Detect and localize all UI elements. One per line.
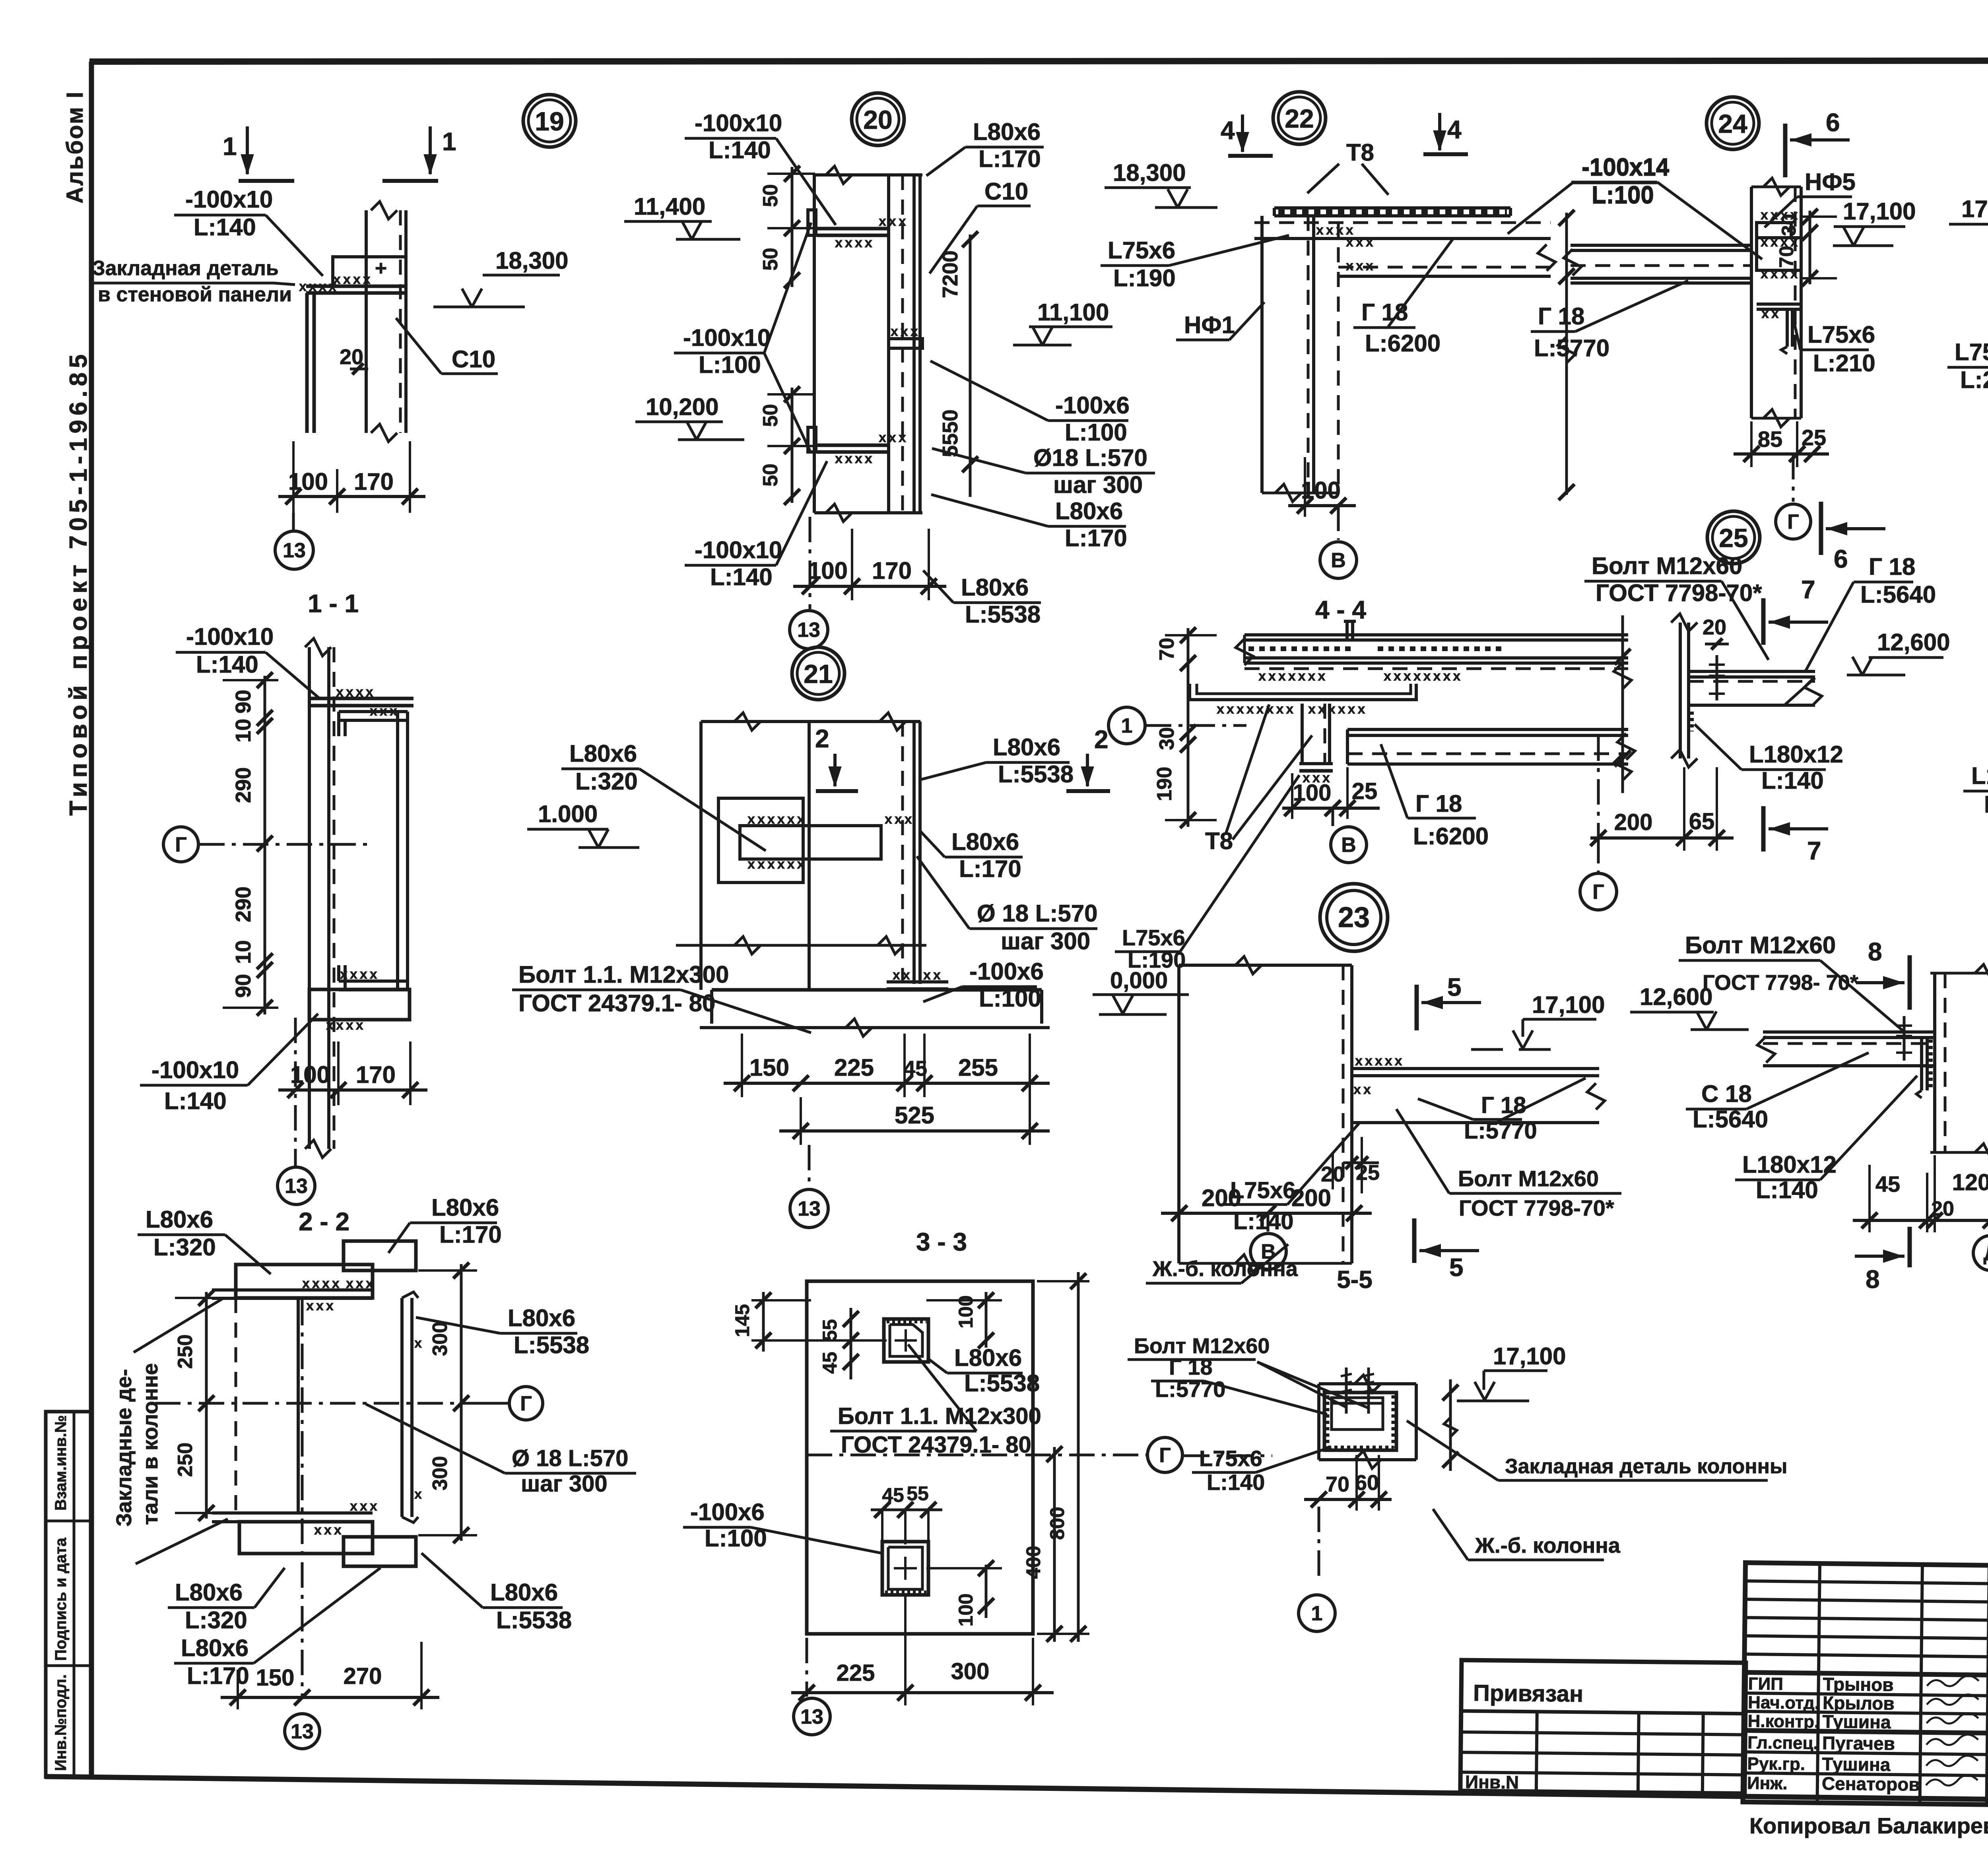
title 1-1 <box>308 589 359 618</box>
cut mark 2 right (21) <box>1066 725 1110 791</box>
label Ø18 L570 шаг300 (21) <box>917 856 1098 954</box>
cut mark 7 top (25) <box>1763 575 1828 645</box>
svg-text:L:210: L:210 <box>1960 367 1988 393</box>
svg-text:8: 8 <box>1866 1265 1880 1294</box>
svg-text:x: x <box>414 1487 424 1502</box>
stamp label vzam <box>52 1415 70 1511</box>
svg-text:400: 400 <box>1022 1546 1044 1579</box>
bottom-right plate (2-2) <box>344 1537 416 1566</box>
channel C10 (1-1) <box>339 712 408 990</box>
dim chain left (1-1) <box>223 672 278 1016</box>
svg-text:10: 10 <box>231 719 255 743</box>
column (2-2) <box>236 1298 298 1513</box>
svg-text:300: 300 <box>429 1456 452 1491</box>
svg-text:-100x10: -100x10 <box>186 623 274 650</box>
dim vert right (5-5) <box>1442 1379 1458 1471</box>
svg-text:55: 55 <box>819 1319 841 1341</box>
svg-text:xxxx: xxxx <box>1761 208 1800 223</box>
weld xxx (22) <box>1316 223 1376 273</box>
label -100x6 L100 (20) <box>930 361 1130 446</box>
svg-text:L80x6: L80x6 <box>490 1579 558 1606</box>
detail 20 bubble <box>852 93 904 145</box>
svg-text:18,300: 18,300 <box>495 247 569 274</box>
dim 50/50 bottom (20) <box>759 386 815 505</box>
svg-text:Болт 1.1. М12x300: Болт 1.1. М12x300 <box>838 1403 1041 1429</box>
dim 55 45 (3-3) <box>819 1308 859 1379</box>
T8 member (n1) <box>1190 684 1416 717</box>
dim 85 25 (24) <box>1734 421 1829 467</box>
label Г18 L5770 (24) <box>1531 281 1688 361</box>
svg-text:-100x10: -100x10 <box>683 324 771 351</box>
svg-text:L:6200: L:6200 <box>1365 330 1441 357</box>
svg-text:L:320: L:320 <box>575 768 638 795</box>
svg-text:C10: C10 <box>452 346 495 372</box>
label L75x6 L210 (24) <box>1793 318 1875 376</box>
embed angle block (21) <box>718 798 914 883</box>
svg-text:Ø 18 L:570: Ø 18 L:570 <box>977 900 1098 927</box>
svg-text:xx: xx <box>1353 1082 1373 1097</box>
label L180x12 L140 (26) <box>1735 1076 1917 1203</box>
dim 100 25 (n1) <box>1282 767 1380 819</box>
svg-text:С 18: С 18 <box>1701 1080 1752 1107</box>
label Г18 L5640 (25) <box>1805 553 1936 672</box>
detail 19 bubble <box>523 95 576 147</box>
svg-text:-100x10: -100x10 <box>695 110 782 136</box>
svg-text:170: 170 <box>356 1061 396 1088</box>
svg-text:Г: Г <box>175 833 186 856</box>
svg-text:L:5538: L:5538 <box>965 601 1041 628</box>
label -100x10 L140 (1-1 top) <box>176 623 320 699</box>
label L75x6 L140 (23) <box>1223 1123 1359 1234</box>
sheet border bottom <box>45 1777 1988 1806</box>
svg-text:300: 300 <box>951 1658 990 1684</box>
label L80x6 L320 (2-2 top) <box>138 1206 271 1274</box>
label -100x14 L100 (24) <box>1571 153 1762 259</box>
wall panel column (19) <box>366 202 406 442</box>
svg-text:L:6200: L:6200 <box>1413 823 1489 850</box>
detail 19 cut mark 1 right <box>382 126 456 181</box>
svg-text:-100x10: -100x10 <box>695 537 782 563</box>
svg-text:1: 1 <box>1121 714 1133 737</box>
svg-text:Типовой проект 705-1-196.85: Типовой проект 705-1-196.85 <box>65 350 92 816</box>
svg-text:24: 24 <box>1718 109 1747 138</box>
column left (22) <box>1262 216 1338 502</box>
svg-text:L:100: L:100 <box>1592 181 1654 208</box>
svg-text:200: 200 <box>1614 809 1653 835</box>
svg-text:xxxxxx: xxxxxx <box>747 857 807 872</box>
svg-text:Д: Д <box>1983 1242 1988 1265</box>
label -100x6 L100 (21) <box>923 958 1044 1012</box>
svg-text:L:5640: L:5640 <box>1860 581 1936 608</box>
svg-text:тали в колонне: тали в колонне <box>138 1363 162 1525</box>
elevation 18.300 (19) <box>433 247 569 307</box>
svg-text:290: 290 <box>231 886 255 922</box>
svg-text:11,100: 11,100 <box>1037 299 1109 326</box>
svg-text:Тушина: Тушина <box>1822 1711 1891 1732</box>
title 5-5 <box>1337 1266 1373 1294</box>
label -100x10 L100 (20) <box>674 223 811 453</box>
svg-text:L:140: L:140 <box>164 1088 227 1114</box>
svg-text:L:140: L:140 <box>1984 791 1988 818</box>
svg-text:-100x14: -100x14 <box>1582 153 1670 180</box>
embed plate vertical (19) <box>307 293 314 433</box>
svg-text:20: 20 <box>1703 615 1726 639</box>
detail 25 bubble <box>1707 511 1760 564</box>
svg-text:xxxx: xxxx <box>835 235 875 250</box>
svg-text:200: 200 <box>1291 1185 1331 1211</box>
svg-text:В: В <box>1261 1240 1276 1263</box>
title 3-3 <box>916 1228 967 1256</box>
svg-text:L:170: L:170 <box>978 145 1041 172</box>
svg-text:3 - 3: 3 - 3 <box>916 1228 967 1256</box>
svg-text:L80x6: L80x6 <box>431 1194 499 1221</box>
dim 30 70 (24) <box>1775 209 1837 286</box>
svg-text:шаг 300: шаг 300 <box>521 1471 608 1497</box>
svg-text:L:320: L:320 <box>185 1607 247 1633</box>
svg-text:xxxx: xxxx <box>340 967 380 982</box>
svg-text:5: 5 <box>1449 1253 1464 1282</box>
label Т8 (22) <box>1307 139 1388 195</box>
axis 13 (2-2) <box>285 1714 320 1749</box>
svg-text:12,600: 12,600 <box>1640 983 1713 1010</box>
elevation 17.100 (6-6) <box>1949 196 1988 242</box>
label Г18 L5770 (23) <box>1418 1092 1537 1144</box>
svg-text:11,400: 11,400 <box>634 193 705 220</box>
svg-text:L75x6: L75x6 <box>1108 237 1175 264</box>
cut mark 6 bottom (24) <box>1821 502 1885 573</box>
axis В (n1) <box>1331 808 1367 863</box>
dim 100 top (3-3) <box>926 1292 1002 1348</box>
right angle L5538 (2-2) <box>402 1292 424 1523</box>
axis horizontal (2-2) <box>155 1387 543 1420</box>
dim 225 300 (3-3) <box>791 1596 1054 1705</box>
svg-text:-100x10: -100x10 <box>185 186 273 213</box>
svg-text:L:170: L:170 <box>439 1221 502 1248</box>
svg-text:10,200: 10,200 <box>646 394 719 420</box>
dim 250 250 (2-2) <box>174 1290 223 1521</box>
dim 20 (19) <box>340 345 368 374</box>
dim line 2 (21) <box>779 1097 1050 1145</box>
svg-text:НФ1: НФ1 <box>1184 312 1235 338</box>
svg-text:L:140: L:140 <box>1756 1177 1818 1203</box>
svg-text:-100x6: -100x6 <box>690 1499 765 1525</box>
label L80x6 L5538 (3-3) <box>927 1344 1040 1397</box>
svg-text:250: 250 <box>174 1334 197 1369</box>
svg-text:Болт М12x60: Болт М12x60 <box>1685 932 1836 958</box>
svg-text:30: 30 <box>1155 727 1178 750</box>
column (23) <box>1179 956 1352 1272</box>
svg-text:xxx: xxx <box>891 324 920 339</box>
svg-text:L:5538: L:5538 <box>514 1332 589 1358</box>
label C10 (20) <box>930 178 1031 273</box>
svg-text:85: 85 <box>1758 427 1782 452</box>
sheet border top <box>89 60 1988 62</box>
svg-text:2: 2 <box>1094 725 1109 754</box>
embed channel (5-5) <box>1324 1393 1396 1450</box>
svg-text:в стеновой панели: в стеновой панели <box>98 283 292 306</box>
label Г18 L6200 (n1) <box>1381 744 1489 850</box>
svg-text:L75x6: L75x6 <box>1807 321 1875 348</box>
label L80x6 L170 (20 topright) <box>926 118 1044 176</box>
svg-text:xxx: xxx <box>306 1298 336 1313</box>
weld small (23) <box>1353 1082 1373 1097</box>
elevation 18.300 (22) <box>1105 159 1217 208</box>
dim 150 270 (2-2) <box>221 1642 439 1709</box>
angle L80 (20) <box>903 175 920 513</box>
svg-text:Подпись и дата: Подпись и дата <box>52 1537 70 1661</box>
stamp box divider 2 <box>46 1664 91 1667</box>
svg-text:Инв.N: Инв.N <box>1465 1771 1519 1792</box>
axis Г circle (1-1) <box>163 827 374 862</box>
column (5-5) <box>1319 1375 1416 1468</box>
embed box 2 (3-3) <box>882 1542 928 1595</box>
svg-text:17,100: 17,100 <box>1493 1343 1566 1369</box>
column (21) <box>701 713 920 990</box>
column axis dashed (22) <box>1337 223 1340 493</box>
bolt (26) <box>1896 1016 1912 1061</box>
title 4-4 <box>1315 595 1366 624</box>
svg-text:L:190: L:190 <box>1113 265 1176 291</box>
dim 100 (22) <box>1288 457 1356 517</box>
label -100x10 L140 (20 top) <box>685 110 836 225</box>
svg-text:xxx: xxx <box>346 1276 376 1291</box>
svg-text:xxx: xxx <box>879 214 909 229</box>
stamp label inv <box>52 1674 70 1771</box>
dim line bottom (20) <box>793 529 946 600</box>
label С18 L5640 (26) <box>1686 1053 1869 1133</box>
svg-text:Гл.спец.: Гл.спец. <box>1747 1733 1818 1753</box>
label Закладная деталь колонны <box>1407 1421 1787 1480</box>
svg-text:100: 100 <box>1301 477 1341 504</box>
dim 50/50 top (20) <box>759 166 815 288</box>
svg-text:L:5538: L:5538 <box>964 1370 1040 1397</box>
label Болт 1.1 М12x300 (21) <box>512 961 811 1033</box>
dim 300 300 (2-2) <box>418 1263 477 1543</box>
svg-text:xxxx: xxxx <box>835 451 875 466</box>
svg-text:25: 25 <box>1352 778 1378 804</box>
svg-text:Болт 1.1. М12x300: Болт 1.1. М12x300 <box>518 961 729 988</box>
bolt (25) <box>1709 655 1725 700</box>
axis В (22) <box>1320 506 1357 578</box>
svg-text:13: 13 <box>283 539 306 562</box>
svg-text:L:170: L:170 <box>187 1662 249 1689</box>
svg-text:800: 800 <box>1046 1507 1068 1540</box>
embed plate upper (20) <box>808 210 909 250</box>
svg-text:Г 18: Г 18 <box>1361 299 1408 326</box>
label НФ1 (22) <box>1176 302 1264 340</box>
svg-text:L:100: L:100 <box>1065 419 1127 446</box>
svg-text:L:140: L:140 <box>709 137 771 163</box>
axis 13 (20) <box>790 517 828 649</box>
svg-text:xx: xx <box>1761 306 1781 321</box>
svg-text:В: В <box>1331 549 1346 572</box>
stamp label podpis <box>52 1537 70 1661</box>
svg-text:Закладная деталь колонны: Закладная деталь колонны <box>1505 1455 1787 1478</box>
svg-text:100: 100 <box>1293 780 1332 806</box>
svg-text:шаг 300: шаг 300 <box>1053 471 1143 498</box>
svg-text:50: 50 <box>759 248 782 271</box>
svg-text:70: 70 <box>1326 1472 1349 1496</box>
svg-text:Трынов: Трынов <box>1823 1674 1893 1695</box>
svg-text:19: 19 <box>535 107 564 136</box>
svg-text:10: 10 <box>231 940 255 964</box>
svg-text:xxxxxxx: xxxxxxx <box>1258 669 1328 684</box>
svg-text:xx: xx <box>923 968 943 983</box>
bracket C18 (23) <box>1352 1053 1605 1123</box>
plate stack (24) <box>1757 208 1801 281</box>
svg-text:65: 65 <box>1689 809 1715 834</box>
svg-text:L:140: L:140 <box>710 564 773 590</box>
svg-text:Инж.: Инж. <box>1747 1773 1788 1793</box>
axis Г (24) <box>1776 454 1811 539</box>
album label <box>62 91 88 204</box>
svg-text:L:5770: L:5770 <box>1464 1118 1537 1144</box>
svg-text:Г: Г <box>1159 1444 1171 1467</box>
svg-text:Привязан: Привязан <box>1473 1680 1583 1707</box>
dim 200 65 (25) <box>1590 767 1734 851</box>
label L80x6 L170 (2-2 top) <box>388 1194 502 1253</box>
sheet border left <box>89 62 94 1777</box>
svg-text:1: 1 <box>223 132 237 161</box>
bracket beam (25) <box>1689 671 1822 705</box>
svg-text:L:5640: L:5640 <box>1693 1106 1768 1133</box>
svg-text:190: 190 <box>1153 767 1176 801</box>
stamp box outer <box>46 1412 91 1777</box>
column (24) <box>1751 178 1801 427</box>
svg-text:L80x6: L80x6 <box>954 1344 1022 1371</box>
svg-text:Г 18: Г 18 <box>1538 303 1584 330</box>
svg-text:ГОСТ 7798-70*: ГОСТ 7798-70* <box>1459 1195 1614 1220</box>
svg-text:L80x6: L80x6 <box>951 828 1019 855</box>
svg-text:100: 100 <box>955 1593 977 1626</box>
svg-text:L80x6: L80x6 <box>961 574 1029 601</box>
label L80x6 L320 (21) <box>561 740 766 851</box>
label Болт М12x60 (23) <box>1396 1109 1621 1220</box>
svg-text:xxxxxxxx: xxxxxxxx <box>1384 669 1463 684</box>
elevation 1.000 (21) <box>527 801 639 848</box>
svg-text:xxx: xxx <box>1346 258 1376 273</box>
label -100x14 L100 (22r) <box>1508 154 1670 234</box>
axis 13 (1-1) <box>278 1018 315 1205</box>
beam C18 right (n1) <box>1347 729 1635 764</box>
svg-text:xxxx: xxxx <box>1761 235 1800 250</box>
svg-text:Г: Г <box>1592 881 1604 904</box>
svg-text:xxxx: xxxx <box>302 1276 342 1291</box>
svg-text:12,600: 12,600 <box>1877 629 1950 656</box>
svg-text:L80x6: L80x6 <box>146 1206 213 1233</box>
dim 5550 (20) <box>938 409 978 497</box>
svg-text:xxxxxx: xxxxxx <box>1308 702 1367 717</box>
detail 21 bubble <box>792 647 845 700</box>
svg-text:L:190: L:190 <box>1128 947 1186 972</box>
elevation 12.600 (26) <box>1630 983 1749 1030</box>
stamp box divider col <box>73 1412 76 1777</box>
svg-text:150: 150 <box>749 1054 789 1081</box>
dim 100 bottom (3-3) <box>926 1560 1002 1627</box>
svg-text:L180x12: L180x12 <box>1971 762 1988 789</box>
svg-text:L:170: L:170 <box>959 855 1021 882</box>
svg-text:Инв.№подл.: Инв.№подл. <box>52 1674 70 1771</box>
plate line pair top (2-2) <box>212 1276 376 1313</box>
dim 20 25 (23) <box>1321 1137 1380 1193</box>
svg-text:50: 50 <box>759 464 782 487</box>
svg-text:1: 1 <box>1311 1602 1323 1625</box>
svg-text:xxxxxxxx: xxxxxxxx <box>1217 702 1296 717</box>
svg-text:Г 18: Г 18 <box>1869 553 1915 580</box>
channel C10 head (19) <box>333 257 406 286</box>
elevation 17.100 (23) <box>1471 991 1605 1049</box>
svg-text:23: 23 <box>1338 902 1370 933</box>
axis 13 (21) <box>790 1145 828 1228</box>
svg-text:13: 13 <box>797 619 820 642</box>
label -100x10 L140 (1-1 bottom) <box>140 1014 318 1114</box>
label Г18 L6200 (22) <box>1353 239 1453 357</box>
svg-text:xxxxx: xxxxx <box>1355 1053 1405 1069</box>
svg-text:L80x6: L80x6 <box>973 118 1041 145</box>
svg-text:xxxxxx: xxxxxx <box>747 812 807 827</box>
svg-text:L:320: L:320 <box>153 1234 216 1261</box>
svg-text:1.000: 1.000 <box>538 801 598 827</box>
label Г18 L5770 (5-5) <box>1151 1354 1327 1414</box>
angle L80 (21) <box>903 722 920 984</box>
svg-text:Рук.гр.: Рук.гр. <box>1747 1754 1805 1774</box>
svg-text:Пугачев: Пугачев <box>1822 1732 1895 1754</box>
svg-text:Тушина: Тушина <box>1822 1753 1891 1775</box>
svg-text:L:100: L:100 <box>699 351 761 378</box>
label L75x6 L140 (5-5) <box>1192 1446 1331 1495</box>
svg-text:50: 50 <box>759 184 782 207</box>
dim 20 (25) <box>1689 615 1729 650</box>
label Закладные детали в колонне (2-2) <box>112 1298 228 1564</box>
privyazan block <box>1460 1660 1746 1795</box>
deck band (22) <box>1254 208 1551 239</box>
dim line right (22) <box>1558 210 1575 500</box>
svg-text:L80x6: L80x6 <box>993 734 1060 760</box>
label -100x6 L100 (3-3) <box>683 1499 883 1554</box>
svg-text:60: 60 <box>1355 1471 1379 1495</box>
bottom plate L320 (2-2) <box>239 1522 373 1554</box>
embed plate top (1-1) <box>309 685 414 719</box>
bracket channel (n1) <box>1299 704 1333 786</box>
svg-text:13: 13 <box>285 1175 308 1198</box>
svg-text:xxx: xxx <box>879 430 909 445</box>
svg-text:7200: 7200 <box>938 250 962 298</box>
svg-text:4 - 4: 4 - 4 <box>1315 595 1366 624</box>
elevation 17.100 (24) <box>1833 198 1916 246</box>
svg-text:13: 13 <box>800 1705 823 1728</box>
anchor bolts (5-5) <box>1341 1367 1374 1414</box>
svg-text:Г 18: Г 18 <box>1481 1092 1526 1118</box>
svg-text:В: В <box>1341 834 1356 857</box>
svg-text:25: 25 <box>1802 425 1826 450</box>
svg-text:L80x6: L80x6 <box>508 1305 575 1331</box>
svg-text:100: 100 <box>808 557 848 584</box>
axis Г (3-3) <box>807 1437 1182 1472</box>
svg-text:13: 13 <box>291 1720 314 1743</box>
dim line bottom (19) <box>278 441 425 513</box>
label L80x6 L170 (2-2 bottom) <box>174 1568 381 1689</box>
svg-text:17,100: 17,100 <box>1843 198 1916 225</box>
dim 45 55 (3-3) <box>871 1482 942 1544</box>
elevation 0.000 (21) <box>1093 968 1189 1014</box>
label -100x10 L140 (19) <box>174 186 323 276</box>
detail 19 cut mark 1 left <box>223 126 294 181</box>
svg-text:17,100: 17,100 <box>1532 991 1605 1018</box>
elevation 11.100 (20) <box>1013 299 1112 345</box>
label L80x6 L5538 (2-2 bottomright) <box>421 1553 572 1633</box>
svg-text:L180x12: L180x12 <box>1749 741 1843 768</box>
svg-text:45: 45 <box>1875 1172 1900 1197</box>
